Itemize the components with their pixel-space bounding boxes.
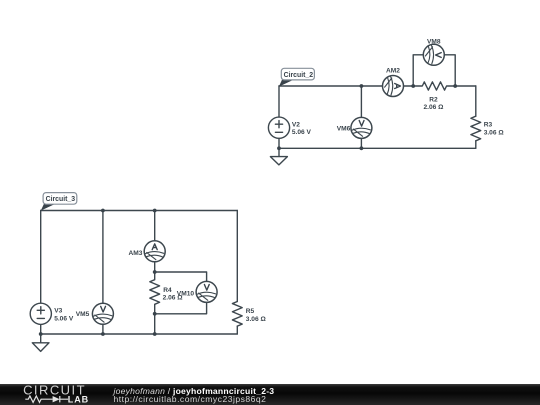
svg-text:VM8: VM8 <box>427 38 441 45</box>
label V3 value <box>54 307 74 322</box>
svg-text:V2: V2 <box>292 122 300 129</box>
node: VM5 top <box>101 209 105 213</box>
wire: bottom rail <box>41 333 238 335</box>
node: VM8/R2 left <box>411 84 415 88</box>
wire: R3 branch vertical top lead <box>475 86 477 116</box>
svg-text:R2: R2 <box>429 97 438 104</box>
ammeter AM3 <box>144 241 165 262</box>
ammeter AM2 (rotated 90) <box>383 76 404 97</box>
wire: left vertical (V3 branch) <box>40 211 42 335</box>
wire: R5 branch top lead <box>236 211 238 302</box>
wire: bottom rail <box>279 147 476 149</box>
voltage source V2 <box>268 117 289 138</box>
wire: R4 to bottom <box>154 314 156 334</box>
credit text <box>114 387 275 403</box>
node: AM3 top <box>153 209 157 213</box>
voltmeter VM5 <box>92 303 113 324</box>
wire: VM8 loop <box>413 55 455 86</box>
svg-text:3.06 Ω: 3.06 Ω <box>246 316 267 323</box>
resistor R4 <box>150 272 160 314</box>
wire: top rail <box>41 210 238 212</box>
node: R4 bottom junction <box>153 312 157 316</box>
resistor R5 <box>232 302 242 327</box>
svg-text:V3: V3 <box>54 307 62 314</box>
ground (Circuit_3) <box>32 343 49 352</box>
wire: ground stub <box>278 148 280 156</box>
wire: R5 bottom lead <box>236 326 238 334</box>
node: AM3/R4 junction <box>153 270 157 274</box>
svg-text:AM2: AM2 <box>386 67 400 74</box>
wire: left vertical (V2 branch) <box>278 86 280 148</box>
net flag Circuit_2 <box>279 68 315 86</box>
node: ground junction <box>39 332 43 336</box>
label R5 value <box>246 308 267 323</box>
node junction dots Circuit_3 <box>39 209 157 336</box>
node: VM8/R2 right <box>453 84 457 88</box>
svg-text:5.06 V: 5.06 V <box>54 315 74 322</box>
wire: ground stub <box>40 334 42 343</box>
wire: top rail right segment <box>455 85 476 87</box>
svg-text:AM3: AM3 <box>128 250 142 257</box>
ground (Circuit_2) <box>270 157 287 165</box>
voltage source V3 <box>30 303 51 324</box>
svg-text:LAB: LAB <box>68 395 89 405</box>
CircuitLab logo <box>0 382 110 405</box>
svg-text:VM6: VM6 <box>337 125 351 132</box>
resistor R3 <box>471 116 481 141</box>
svg-text:Circuit_2: Circuit_2 <box>284 72 314 79</box>
voltmeter VM10 <box>196 281 217 302</box>
svg-text:Circuit_3: Circuit_3 <box>46 196 76 203</box>
svg-text:R5: R5 <box>246 308 255 315</box>
wire: top rail left segment <box>279 85 413 87</box>
net flag Circuit_3 <box>41 193 77 211</box>
svg-text:2.06 Ω: 2.06 Ω <box>424 104 445 111</box>
node: VM6 bottom <box>360 146 364 150</box>
svg-text:VM5: VM5 <box>76 311 90 318</box>
label V2 value <box>292 122 312 136</box>
resistor R2 <box>413 82 455 90</box>
label R3 value <box>484 121 505 136</box>
label R4 value <box>163 287 184 302</box>
voltmeter VM8 (rotated 90) <box>423 44 444 65</box>
svg-text:R4: R4 <box>163 287 172 294</box>
wire: VM5 branch vertical <box>102 211 104 335</box>
node: R4 branch bottom <box>153 332 157 336</box>
svg-text:R3: R3 <box>484 121 493 128</box>
wire: VM10 loop <box>155 272 207 314</box>
svg-text:3.06 Ω: 3.06 Ω <box>484 129 505 136</box>
wire: VM6 branch vertical <box>360 86 362 148</box>
svg-text:VM10: VM10 <box>177 290 195 297</box>
node: VM6 top <box>360 84 364 88</box>
wire: AM3/R4 branch vertical <box>154 211 156 273</box>
voltmeter VM6 <box>351 117 372 138</box>
footer bar <box>0 384 540 405</box>
label R2 value <box>424 97 445 111</box>
svg-text:5.06 V: 5.06 V <box>292 129 312 136</box>
wire: R3 bottom lead <box>475 141 477 149</box>
node: VM5 bottom <box>101 332 105 336</box>
node: ground junction <box>277 146 281 150</box>
node junction dots Circuit_2 <box>277 84 457 150</box>
